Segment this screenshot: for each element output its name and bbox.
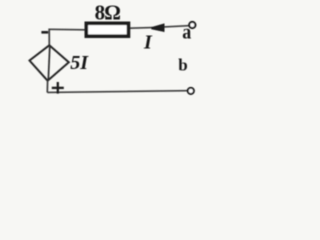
minus polarity mark of source xyxy=(41,31,48,34)
wire: top-left corner to resistor left xyxy=(49,28,85,31)
paper background xyxy=(0,0,231,117)
terminal a node circle xyxy=(189,22,195,28)
circuit schematic: CCVS 5I with 8-ohm resistor and terminals a,b xyxy=(0,0,231,117)
svg-text:5I: 5I xyxy=(70,52,89,74)
terminal b node circle xyxy=(188,88,194,94)
wire through diamond xyxy=(48,46,50,80)
svg-text:I: I xyxy=(143,31,153,53)
plus polarity mark of source xyxy=(52,87,64,89)
svg-text:a: a xyxy=(182,22,192,44)
wire: resistor right to current arrow xyxy=(130,27,153,30)
current arrow (I, pointing left) xyxy=(151,23,164,32)
svg-text:8Ω: 8Ω xyxy=(95,0,121,24)
wire: bottom rail to terminal b xyxy=(47,91,187,93)
svg-text:b: b xyxy=(178,55,187,74)
wire: arrow to terminal a xyxy=(164,26,189,27)
wire: diamond bottom stem xyxy=(46,81,48,93)
wire: left branch top segment (corner down to diamond) xyxy=(48,29,50,47)
dependent source U1 diamond (CCVS 5I) xyxy=(30,45,69,80)
resistor R (8 ohm) body xyxy=(86,23,128,36)
